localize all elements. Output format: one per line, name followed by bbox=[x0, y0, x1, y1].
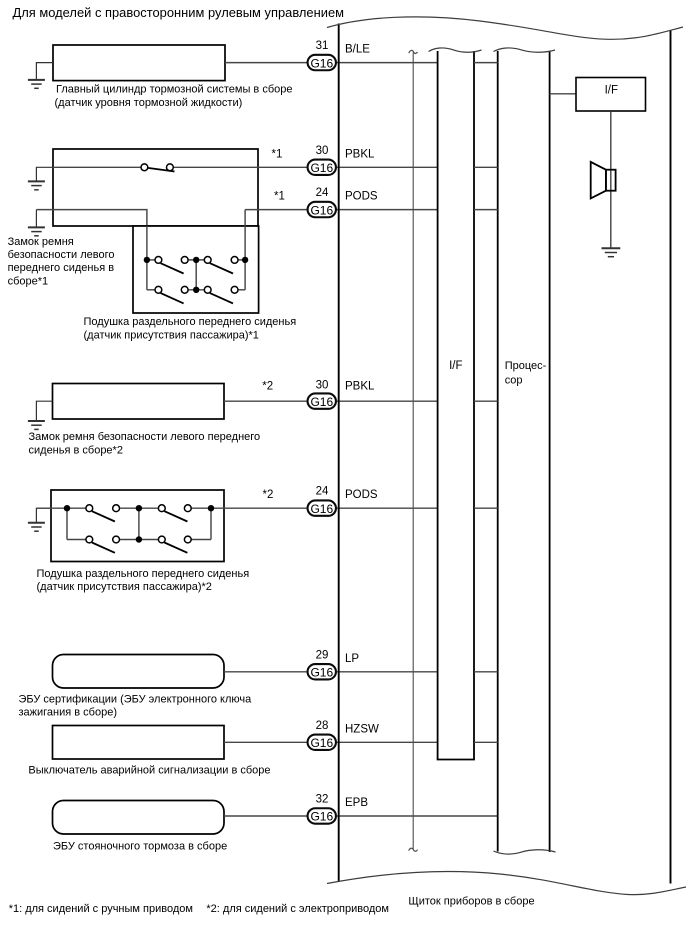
svg-text:PODS: PODS bbox=[345, 489, 378, 501]
svg-text:G16: G16 bbox=[310, 395, 333, 409]
wire label PODS bbox=[345, 191, 378, 203]
svg-text:G16: G16 bbox=[310, 161, 333, 175]
wire PBKL *1 bbox=[53, 166, 307, 168]
wire label LP bbox=[345, 653, 359, 665]
svg-text:G16: G16 bbox=[310, 203, 333, 217]
wire: I/F to speaker and ground bbox=[610, 111, 612, 248]
I/F interface box (top right) bbox=[576, 78, 646, 112]
ground (cushion PODS *1) bbox=[28, 210, 45, 236]
sensor matrix *2 wires bbox=[36, 508, 306, 539]
svg-text:*2: *2 bbox=[263, 489, 274, 501]
footnote bbox=[9, 903, 389, 915]
brake master cylinder box bbox=[53, 45, 225, 81]
svg-text:*2: для сидений с электроприво: *2: для сидений с электроприводом bbox=[206, 903, 389, 915]
wire label PODS *2 bbox=[345, 489, 378, 501]
svg-text:Подушка раздельного переднего: Подушка раздельного переднего сиденья bbox=[84, 316, 297, 328]
svg-text:I/F: I/F bbox=[449, 360, 462, 372]
seat cushion sensor *1 box bbox=[133, 226, 259, 313]
svg-text:LP: LP bbox=[345, 653, 359, 665]
caption master cylinder bbox=[55, 84, 293, 109]
svg-text:безопасности левого: безопасности левого bbox=[8, 249, 115, 261]
svg-text:30: 30 bbox=[316, 145, 329, 157]
svg-text:Замок ремня безопасности левог: Замок ремня безопасности левого переднег… bbox=[29, 431, 261, 443]
wire label EPB bbox=[345, 797, 368, 809]
ground (master cylinder) bbox=[28, 63, 53, 89]
svg-text:PODS: PODS bbox=[345, 191, 378, 203]
svg-text:ЭБУ стояночного тормоза в сбор: ЭБУ стояночного тормоза в сборе bbox=[53, 841, 227, 853]
cluster label bbox=[408, 895, 534, 907]
svg-text:переднего сиденья в: переднего сиденья в bbox=[8, 262, 115, 274]
wire: G16-31 to cluster I/F bbox=[337, 62, 438, 64]
svg-text:G16: G16 bbox=[310, 736, 333, 750]
caption parking brake ECU bbox=[53, 841, 227, 853]
seat belt buckle LH front *1 box bbox=[53, 149, 258, 226]
cluster I/F block bbox=[429, 48, 482, 760]
connector G16 pin 24 *2 bbox=[308, 486, 336, 516]
wire LP bbox=[224, 671, 307, 673]
connector G16 pin 31 bbox=[308, 40, 336, 70]
connector G16 pin 30 *2 bbox=[308, 379, 336, 409]
note *2 (PBKL) bbox=[262, 380, 273, 392]
svg-text:Для моделей с правосторонним р: Для моделей с правосторонним рулевым упр… bbox=[13, 5, 345, 20]
svg-text:32: 32 bbox=[316, 794, 329, 806]
svg-text:сборе*1: сборе*1 bbox=[8, 275, 49, 287]
svg-text:(датчик присутствия пассажира): (датчик присутствия пассажира)*1 bbox=[84, 329, 259, 341]
connector G16 pin 24 *1 bbox=[308, 187, 336, 217]
note *2 (PODS) bbox=[263, 489, 274, 501]
wire label HZSW bbox=[345, 723, 379, 735]
wire: G16-28 to cluster I/F bbox=[337, 741, 438, 743]
sensor matrix *2 contacts bbox=[64, 505, 214, 553]
connector G16 pin 30 *1 bbox=[308, 145, 336, 175]
svg-text:*1: для сидений с ручным приво: *1: для сидений с ручным приводом bbox=[9, 903, 193, 915]
wire: G16-24 *2 to cluster I/F bbox=[337, 507, 438, 509]
caption buckle *1 bbox=[8, 236, 115, 288]
wire label B/LE bbox=[345, 44, 370, 56]
parking brake ECU box bbox=[53, 801, 225, 835]
connector G16 pin 28 bbox=[308, 720, 336, 750]
wire label PBKL *2 bbox=[345, 380, 375, 392]
caption buckle *2 bbox=[29, 431, 261, 456]
stub wires I/F to processor bbox=[474, 63, 498, 743]
svg-text:30: 30 bbox=[316, 379, 329, 391]
title bbox=[13, 5, 345, 20]
svg-text:сиденья в сборе*2: сиденья в сборе*2 bbox=[29, 444, 123, 456]
svg-text:24: 24 bbox=[316, 187, 329, 199]
sensor matrix *1 contacts bbox=[144, 257, 249, 304]
svg-text:Выключатель аварийной сигнализ: Выключатель аварийной сигнализации в сбо… bbox=[28, 765, 270, 777]
wire HZSW bbox=[224, 741, 307, 743]
svg-text:Главный цилиндр тормозной сист: Главный цилиндр тормозной системы в сбор… bbox=[56, 84, 292, 96]
wire PBKL *2 bbox=[224, 400, 307, 402]
wire: G16-24 to cluster I/F bbox=[337, 209, 438, 211]
svg-text:I/F: I/F bbox=[605, 84, 618, 96]
wire PODS *1 to G16-24 bbox=[245, 209, 306, 211]
svg-text:HZSW: HZSW bbox=[345, 723, 379, 735]
svg-text:PBKL: PBKL bbox=[345, 380, 375, 392]
svg-text:(датчик присутствия пассажира): (датчик присутствия пассажира)*2 bbox=[37, 581, 212, 593]
svg-text:31: 31 bbox=[316, 40, 329, 52]
sensor matrix *1 wires bbox=[147, 210, 245, 290]
wire: G16-30 to cluster I/F bbox=[337, 166, 438, 168]
note *1 (PODS) bbox=[274, 191, 285, 203]
svg-text:*1: *1 bbox=[272, 148, 283, 160]
processor block bbox=[494, 48, 556, 854]
hazard switch box bbox=[53, 726, 225, 760]
ground (buckle *2) bbox=[28, 401, 53, 429]
svg-text:(датчик уровня тормозной жидко: (датчик уровня тормозной жидкости) bbox=[55, 97, 243, 109]
note *1 (PBKL) bbox=[272, 148, 283, 160]
svg-text:сор: сор bbox=[505, 374, 523, 386]
connector G16 pin 32 bbox=[308, 794, 336, 824]
svg-text:Замок ремня: Замок ремня bbox=[8, 236, 74, 248]
ground (speaker) bbox=[602, 248, 621, 256]
wire: G16-29 to cluster I/F bbox=[337, 671, 438, 673]
ground (cushion *2) bbox=[28, 508, 51, 531]
wire EPB bbox=[224, 815, 307, 817]
speaker bbox=[591, 162, 616, 199]
svg-text:PBKL: PBKL bbox=[345, 148, 375, 160]
svg-text:B/LE: B/LE bbox=[345, 44, 370, 56]
svg-text:G16: G16 bbox=[310, 665, 333, 679]
wire PODS *1 (ground to matrix) bbox=[36, 210, 146, 260]
svg-text:G16: G16 bbox=[310, 56, 333, 70]
svg-text:Подушка раздельного переднего: Подушка раздельного переднего сиденья bbox=[37, 568, 250, 580]
switch (buckle *1) bbox=[141, 164, 175, 172]
caption hazard switch bbox=[28, 765, 270, 777]
wire: master cylinder to G16-31 bbox=[225, 62, 307, 64]
instrument cluster outline bbox=[327, 17, 686, 895]
svg-text:G16: G16 bbox=[310, 810, 333, 824]
connector G16 pin 29 bbox=[308, 649, 336, 679]
ground (buckle PBKL *1) bbox=[28, 167, 53, 190]
seat cushion sensor *2 box bbox=[51, 490, 224, 562]
seat belt buckle *2 box bbox=[53, 384, 225, 420]
svg-text:Процес-: Процес- bbox=[505, 360, 547, 372]
svg-text:G16: G16 bbox=[310, 502, 333, 516]
wire: processor to I/F interface box bbox=[550, 93, 576, 95]
svg-text:ЭБУ сертификации (ЭБУ электрон: ЭБУ сертификации (ЭБУ электронного ключа bbox=[19, 693, 253, 705]
svg-text:*2: *2 bbox=[262, 380, 273, 392]
wire: G16-30 *2 to cluster I/F bbox=[337, 400, 438, 402]
shield wire bbox=[409, 50, 418, 851]
svg-text:24: 24 bbox=[316, 486, 329, 498]
wire: G16-32 to processor bbox=[337, 815, 498, 817]
svg-text:зажигания в сборе): зажигания в сборе) bbox=[19, 706, 118, 718]
svg-text:*1: *1 bbox=[274, 191, 285, 203]
wire label PBKL bbox=[345, 148, 375, 160]
svg-text:28: 28 bbox=[316, 720, 329, 732]
certification ECU box bbox=[53, 655, 225, 689]
svg-text:Щиток приборов в сборе: Щиток приборов в сборе bbox=[408, 895, 534, 907]
caption certification ECU bbox=[19, 693, 253, 718]
svg-text:EPB: EPB bbox=[345, 797, 368, 809]
svg-text:29: 29 bbox=[316, 649, 329, 661]
caption cushion *1 bbox=[84, 316, 297, 341]
caption cushion *2 bbox=[37, 568, 250, 593]
